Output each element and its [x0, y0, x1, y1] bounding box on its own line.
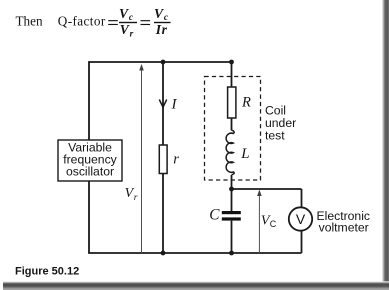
svg-text:r: r	[173, 152, 179, 168]
capacitor C lead top	[231, 189, 233, 211]
svg-text:c: c	[129, 13, 133, 23]
page shadow right edge	[382, 0, 389, 290]
label Electronic voltmeter	[317, 209, 371, 235]
svg-text:V: V	[296, 211, 306, 227]
equation first equals sign	[108, 20, 118, 21]
svg-text:Ir: Ir	[155, 22, 168, 37]
svg-text:r: r	[130, 29, 134, 39]
wire voltmeter bottom vertical	[301, 231, 303, 254]
inductor L coil	[226, 130, 234, 174]
svg-text:Figure 50.12: Figure 50.12	[15, 266, 79, 278]
wire voltmeter top vertical	[301, 189, 303, 208]
oscillator box text	[63, 141, 117, 179]
svg-text:Then: Then	[16, 14, 44, 29]
svg-text:oscillator: oscillator	[66, 165, 114, 179]
wire node to voltmeter horizontal	[232, 188, 302, 190]
circuit wires	[88, 61, 301, 253]
fraction Vc/Ir bar	[154, 22, 171, 23]
Vc measurement arrowhead	[257, 190, 262, 197]
capacitor C bottom plate	[222, 217, 241, 220]
resistor R	[228, 87, 236, 118]
svg-text:C: C	[209, 207, 220, 224]
svg-text:V: V	[120, 22, 130, 37]
svg-text:V: V	[119, 6, 129, 21]
svg-text:V: V	[154, 6, 164, 21]
wire bottom horizontal	[88, 252, 301, 254]
svg-text:Q-factor: Q-factor	[58, 14, 106, 29]
voltmeter circle	[289, 207, 312, 230]
current arrow I	[159, 100, 166, 108]
junction dot top of RL branch	[229, 60, 234, 65]
capacitor C top plate	[222, 211, 241, 214]
Vc measurement line	[258, 192, 260, 253]
page shadow bottom edge	[3, 281, 389, 290]
equation second equals sign	[141, 20, 151, 21]
label Vr	[125, 186, 138, 203]
dashed box coil under test	[205, 77, 261, 181]
wire branch RL vertical upper	[231, 62, 233, 130]
junction dot bottom of I branch	[161, 251, 166, 256]
capacitor C lead bottom	[231, 221, 233, 253]
svg-text:C: C	[270, 219, 277, 229]
fraction Vc/Vr bar	[119, 22, 137, 23]
wire top horizontal	[89, 61, 232, 63]
wire branch I vertical	[162, 62, 164, 253]
svg-text:L: L	[240, 146, 249, 162]
label Coil under test	[265, 104, 296, 143]
svg-text:test: test	[265, 129, 285, 143]
equation text "Then"	[16, 6, 171, 39]
label Vc	[261, 213, 277, 229]
svg-text:r: r	[134, 193, 138, 203]
junction node below coil	[229, 187, 234, 192]
svg-text:R: R	[241, 95, 251, 111]
Vr measurement line	[141, 68, 143, 253]
junction dot bottom of C branch	[229, 251, 234, 256]
wire left vertical	[88, 61, 90, 253]
wire branch RL vertical lower	[231, 175, 233, 189]
oscillator box	[58, 140, 122, 181]
junction dot top of I branch	[161, 60, 166, 65]
resistor r	[159, 145, 167, 174]
svg-text:voltmeter: voltmeter	[319, 220, 369, 234]
Vr measurement arrowhead	[139, 64, 144, 71]
svg-text:I: I	[171, 97, 178, 113]
